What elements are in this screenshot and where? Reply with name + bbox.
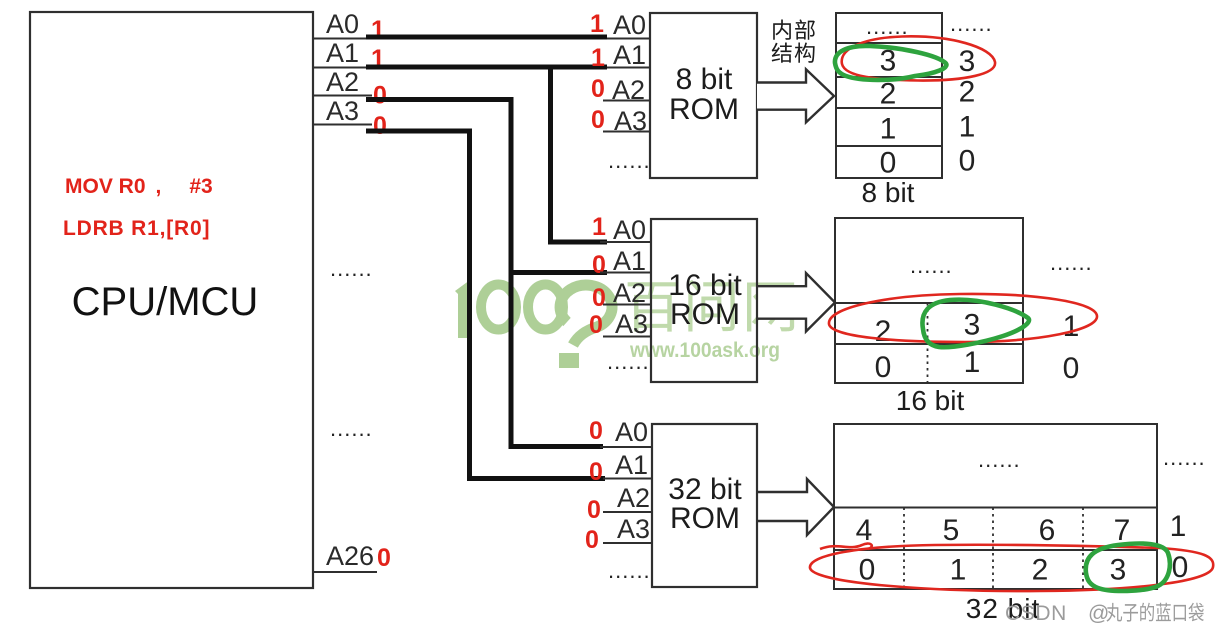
svg-text:ROM: ROM bbox=[669, 93, 739, 126]
svg-text:3: 3 bbox=[1110, 554, 1127, 587]
svg-text:......: ...... bbox=[950, 11, 993, 36]
svg-text:0: 0 bbox=[591, 75, 605, 103]
svg-text:A3: A3 bbox=[617, 514, 650, 544]
svg-text:A0: A0 bbox=[613, 10, 646, 40]
svg-text:2: 2 bbox=[875, 315, 892, 348]
8bit memory array table bbox=[836, 13, 942, 178]
svg-text:......: ...... bbox=[910, 253, 953, 278]
16bit ROM pin A3 stub wire bbox=[603, 336, 651, 338]
wire A26 stub bbox=[313, 571, 377, 573]
svg-text:8 bit: 8 bit bbox=[676, 63, 733, 96]
svg-text:0: 0 bbox=[589, 311, 603, 339]
svg-text:......: ...... bbox=[978, 447, 1021, 472]
label neibu jiegou (internal structure) bbox=[772, 19, 815, 62]
svg-text:1: 1 bbox=[1170, 510, 1187, 543]
svg-text:1: 1 bbox=[880, 113, 897, 146]
svg-text:A1: A1 bbox=[613, 40, 646, 70]
svg-text:2: 2 bbox=[880, 78, 897, 111]
8bit ROM block bbox=[650, 13, 757, 178]
wire A2 branch to 16bit ROM A1 bbox=[511, 270, 607, 275]
svg-text:3: 3 bbox=[964, 309, 981, 342]
svg-text:2: 2 bbox=[959, 76, 976, 109]
wire A1 branch to 16bit ROM A0 bbox=[551, 67, 608, 242]
svg-text:A0: A0 bbox=[326, 9, 359, 39]
CSDN watermark bbox=[1005, 602, 1204, 625]
wire A2 down to 32bit ROM A0 bbox=[366, 100, 603, 447]
svg-text:0: 0 bbox=[589, 458, 603, 486]
red squiggle 32bit left bbox=[820, 544, 872, 549]
svg-text:A26: A26 bbox=[326, 541, 374, 571]
wire A3 thin lead bbox=[313, 124, 372, 126]
svg-text:A0: A0 bbox=[615, 417, 648, 447]
svg-text:0: 0 bbox=[373, 82, 387, 110]
svg-text:1: 1 bbox=[950, 554, 967, 587]
red annotation circle 32bit row0 bbox=[810, 545, 1213, 591]
svg-text:A2: A2 bbox=[326, 67, 359, 97]
svg-text:......: ...... bbox=[608, 148, 651, 173]
16bit ROM pin A1 stub wire bbox=[600, 272, 651, 274]
8bit ROM pin A3 stub wire bbox=[603, 131, 650, 133]
svg-text:LDRB R1,[R0]: LDRB R1,[R0] bbox=[63, 217, 210, 240]
svg-text:0: 0 bbox=[592, 251, 606, 279]
svg-text:1: 1 bbox=[371, 16, 385, 44]
svg-text:A1: A1 bbox=[326, 38, 359, 68]
watermark 100ask logo bbox=[455, 280, 612, 368]
watermark chinese chars bbox=[628, 280, 795, 332]
svg-text:0: 0 bbox=[592, 284, 606, 312]
32bit memory array table bbox=[834, 424, 1157, 589]
wire A0 to 8bit ROM (thick) bbox=[366, 35, 607, 40]
wire A1 to 8bit ROM (thick) bbox=[366, 65, 607, 70]
svg-text:@: @ bbox=[1088, 602, 1109, 625]
green annotation circle 8bit cell3 bbox=[835, 46, 946, 80]
svg-text:0: 0 bbox=[875, 351, 892, 384]
svg-text:MOV R0,#3: MOV R0,#3 bbox=[65, 175, 213, 198]
svg-text:ROM: ROM bbox=[670, 502, 740, 535]
svg-text:0: 0 bbox=[587, 496, 601, 524]
svg-text:3: 3 bbox=[959, 45, 976, 78]
svg-text:1: 1 bbox=[959, 111, 976, 144]
svg-text:0: 0 bbox=[377, 544, 391, 572]
svg-text:1: 1 bbox=[1063, 310, 1080, 343]
32bit ROM pin A2 stub wire bbox=[603, 511, 652, 513]
wire A2 thin lead bbox=[313, 95, 372, 97]
svg-text:A3: A3 bbox=[326, 96, 359, 126]
32bit ROM block bbox=[652, 424, 757, 587]
svg-text:0: 0 bbox=[373, 112, 387, 140]
svg-text:......: ...... bbox=[1163, 445, 1206, 470]
svg-text:0: 0 bbox=[880, 147, 897, 180]
svg-text:0: 0 bbox=[589, 417, 603, 445]
svg-text:0: 0 bbox=[959, 145, 976, 178]
8bit ROM pin A2 stub wire bbox=[603, 100, 650, 102]
svg-text:0: 0 bbox=[591, 106, 605, 134]
wire A0 thin lead bbox=[313, 38, 650, 40]
svg-text:......: ...... bbox=[330, 256, 373, 281]
svg-text:......: ...... bbox=[608, 558, 651, 583]
arrow 32bit ROM to array bbox=[757, 479, 834, 535]
16bit ROM pin A0 stub wire bbox=[600, 241, 651, 243]
svg-text:ROM: ROM bbox=[670, 298, 740, 331]
svg-text:8 bit: 8 bit bbox=[862, 177, 915, 208]
wire A3 down to 32bit ROM A1 bbox=[366, 131, 605, 479]
svg-text:A1: A1 bbox=[615, 450, 648, 480]
svg-text:0: 0 bbox=[585, 526, 599, 554]
svg-text:1: 1 bbox=[591, 44, 605, 72]
svg-text:16 bit: 16 bit bbox=[896, 385, 965, 416]
svg-text:A2: A2 bbox=[617, 483, 650, 513]
red annotation circle 16bit row bbox=[829, 294, 1097, 342]
16bit ROM block bbox=[651, 219, 757, 382]
arrow 16bit ROM to array bbox=[757, 273, 835, 332]
green annotation circle 16bit cell3 bbox=[922, 300, 1029, 348]
svg-text:6: 6 bbox=[1039, 514, 1056, 547]
wire A1 thin lead bbox=[313, 67, 650, 69]
svg-text:0: 0 bbox=[1063, 352, 1080, 385]
32bit ROM pin A3 stub wire bbox=[603, 542, 652, 544]
svg-text:1: 1 bbox=[590, 10, 604, 38]
16bit ROM pin A2 stub wire bbox=[603, 304, 651, 306]
32bit ROM pin A1 stub wire bbox=[603, 478, 652, 480]
16bit memory array table bbox=[835, 218, 1023, 383]
svg-text:CPU/MCU: CPU/MCU bbox=[72, 280, 259, 324]
svg-text:A3: A3 bbox=[615, 309, 648, 339]
red annotation circle 8bit row3 bbox=[842, 36, 995, 80]
green annotation circle 32bit cell3 bbox=[1086, 544, 1170, 591]
svg-text:......: ...... bbox=[330, 416, 373, 441]
svg-text:......: ...... bbox=[1050, 250, 1093, 275]
arrow 8bit ROM to array bbox=[757, 69, 834, 122]
svg-text:......: ...... bbox=[607, 349, 650, 374]
svg-text:5: 5 bbox=[943, 514, 960, 547]
svg-text:0: 0 bbox=[859, 554, 876, 587]
svg-text:1: 1 bbox=[964, 346, 981, 379]
svg-text:CSDN: CSDN bbox=[1005, 602, 1067, 625]
svg-text:A0: A0 bbox=[613, 215, 646, 245]
svg-text:2: 2 bbox=[1032, 554, 1049, 587]
CPU/MCU block bbox=[30, 12, 313, 588]
32bit ROM pin A0 stub wire bbox=[600, 446, 652, 448]
svg-text:1: 1 bbox=[592, 213, 606, 241]
svg-text:4: 4 bbox=[856, 514, 873, 547]
